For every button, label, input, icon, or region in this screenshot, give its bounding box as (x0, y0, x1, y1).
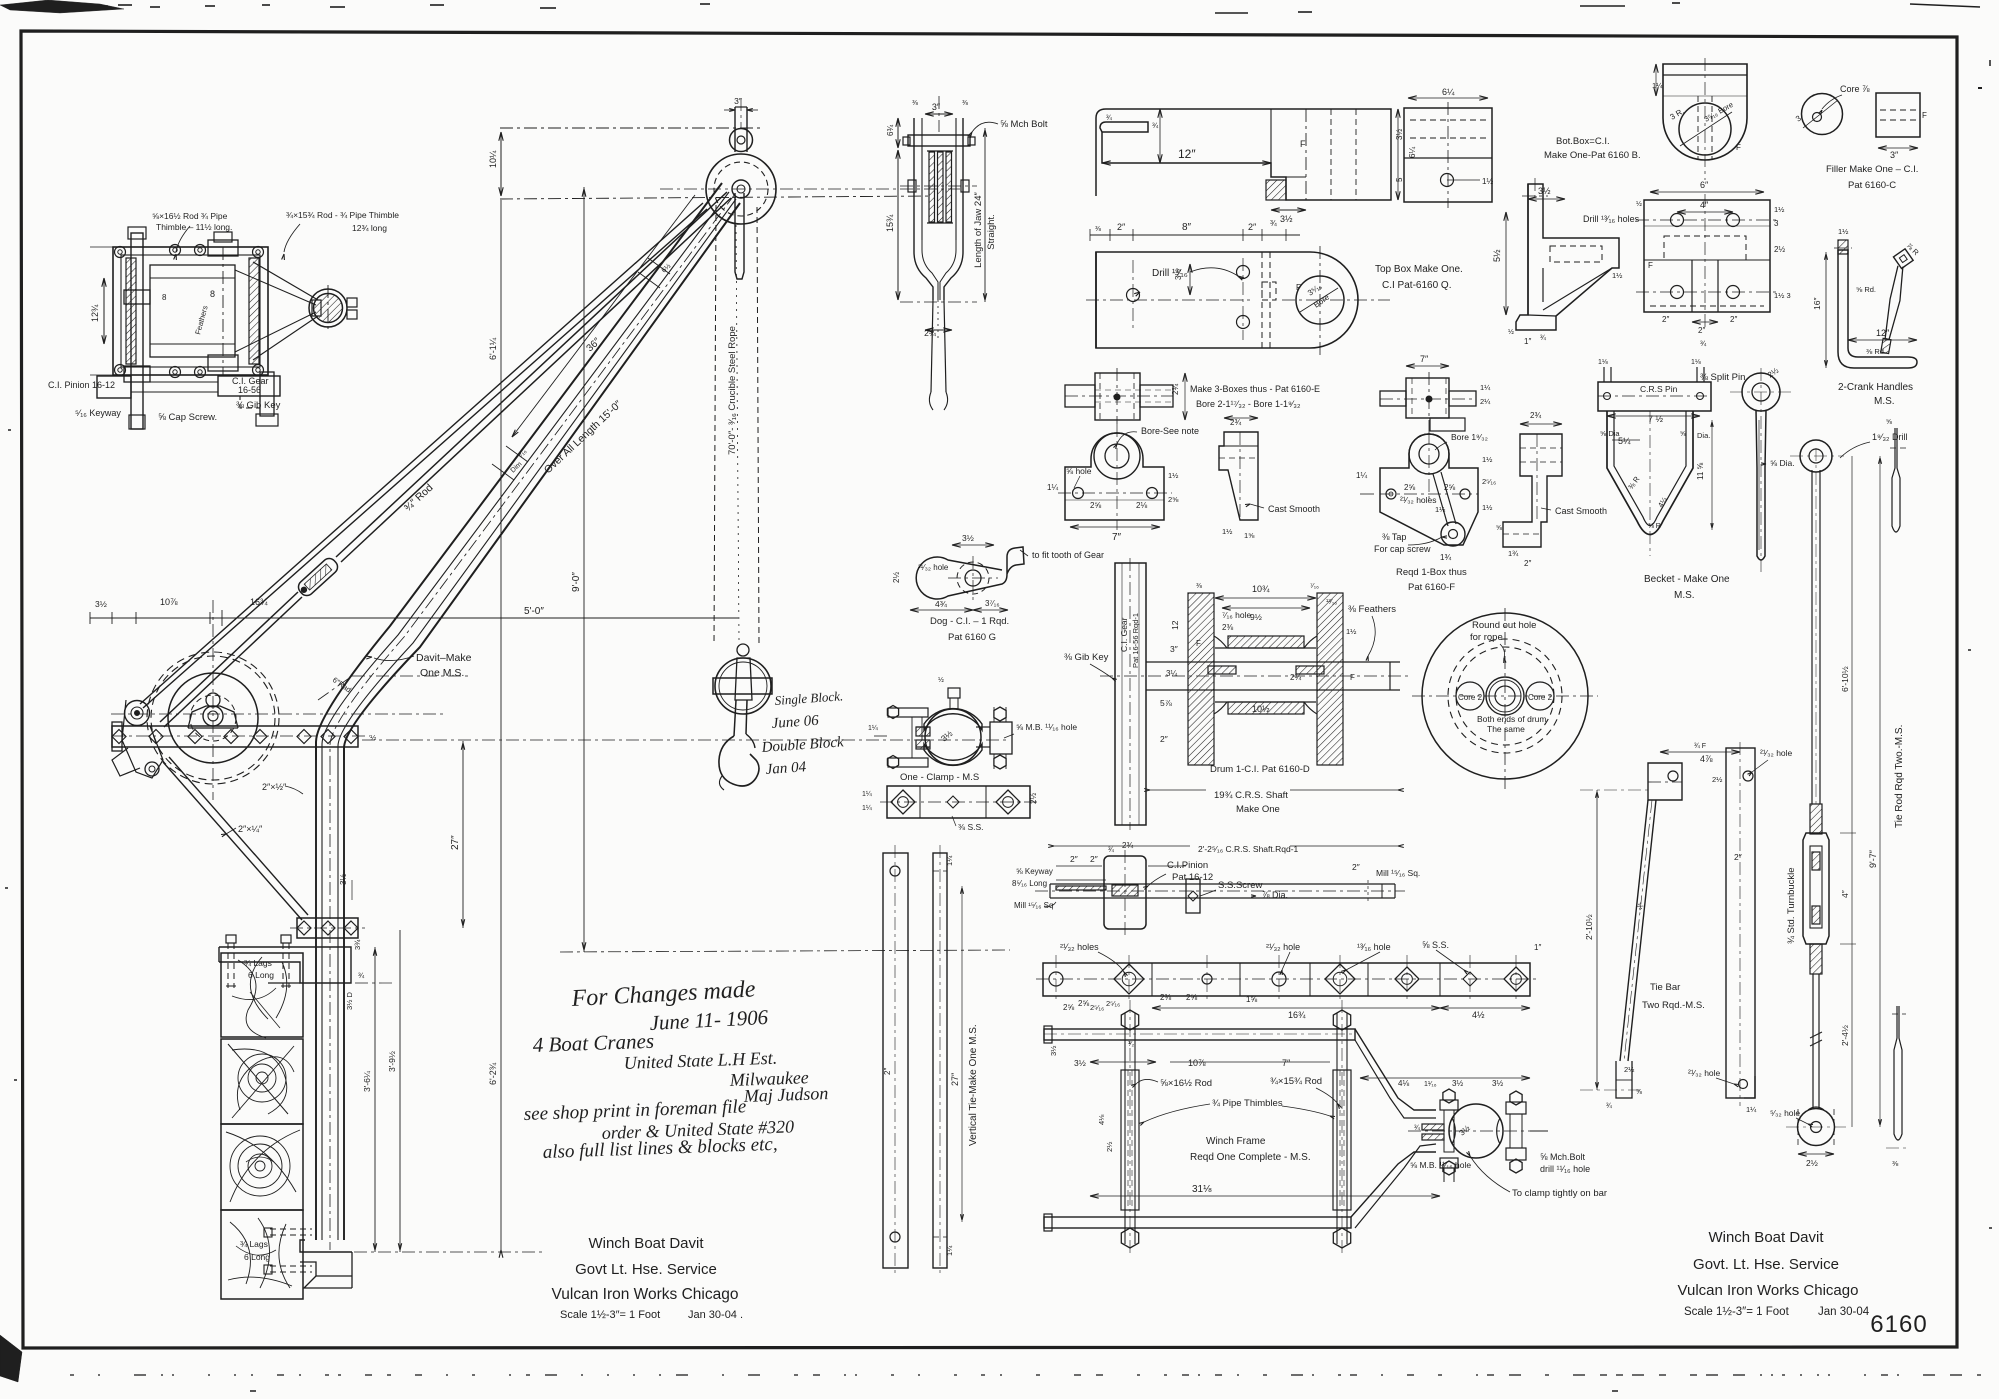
winch frame - clamp rings (1449, 1104, 1503, 1158)
svg-text:⁵⁄₃₂ hole: ⁵⁄₃₂ hole (1770, 1108, 1800, 1118)
svg-text:6″: 6″ (1700, 180, 1709, 190)
C.I. gear edge view bar (1115, 563, 1146, 825)
svg-text:10⅞: 10⅞ (160, 597, 178, 607)
svg-text:¾: ¾ (1152, 121, 1159, 130)
svg-text:2″: 2″ (1070, 854, 1078, 864)
svg-text:1½: 1½ (1222, 527, 1233, 536)
svg-text:2½: 2½ (1806, 1158, 1818, 1168)
svg-text:1½ 3: 1½ 3 (1774, 291, 1791, 300)
svg-text:3″: 3″ (1170, 644, 1178, 654)
rope fall dashed lines to block (714, 205, 716, 645)
svg-text:Reqd One Complete - M.S.: Reqd One Complete - M.S. (1190, 1152, 1311, 1163)
svg-text:²¹⁄₃₂ holes: ²¹⁄₃₂ holes (1400, 495, 1437, 505)
svg-text:C.I. Gear: C.I. Gear (1119, 617, 1129, 652)
svg-text:3'-6¼: 3'-6¼ (362, 1070, 372, 1092)
svg-text:Becket - Make One: Becket - Make One (1644, 574, 1730, 585)
vertical tie - dim 27 (961, 886, 963, 1222)
svg-text:for rope: for rope (1470, 632, 1503, 643)
svg-text:6160: 6160 (1870, 1311, 1927, 1338)
drum section - barrel walls hatched (1228, 636, 1304, 648)
svg-text:2⅝: 2⅝ (1186, 993, 1197, 1002)
svg-text:2″: 2″ (1698, 326, 1705, 335)
svg-text:1¹⁄₁₆: 1¹⁄₁₆ (1424, 1081, 1437, 1088)
winch frame - bottom rail (1044, 1217, 1351, 1228)
svg-text:6 Long: 6 Long (244, 1252, 270, 1262)
box F - side view (1503, 434, 1562, 547)
svg-text:Tie Bar: Tie Bar (1650, 982, 1680, 993)
top box - end plate (1404, 108, 1492, 202)
one-clamp - top bolt (948, 688, 960, 698)
frame bar left end plate (112, 722, 122, 751)
svg-text:3½: 3½ (1280, 214, 1293, 224)
svg-text:Mill ¹⁵⁄₁₆ Sq.: Mill ¹⁵⁄₁₆ Sq. (1376, 868, 1420, 878)
svg-text:12: 12 (1170, 620, 1180, 630)
svg-text:Bore 2-1¹⁷⁄₃₂ - Bore 1-1⁹⁄₃₂: Bore 2-1¹⁷⁄₃₂ - Bore 1-1⁹⁄₃₂ (1196, 399, 1301, 409)
svg-text:Vertical Tie-Make One M.S.: Vertical Tie-Make One M.S. (968, 1024, 979, 1146)
svg-text:6'-10½: 6'-10½ (1840, 666, 1850, 692)
svg-text:¾ Pipe Thimbles: ¾ Pipe Thimbles (1212, 1098, 1283, 1109)
svg-text:C.R.S Pin: C.R.S Pin (1640, 384, 1678, 394)
svg-text:3'-9½: 3'-9½ (387, 1051, 397, 1072)
small rod lower right (1894, 1006, 1902, 1140)
svg-text:Pat 16-12: Pat 16-12 (1172, 872, 1213, 883)
svg-text:3¼: 3¼ (1166, 669, 1177, 678)
svg-text:⅝ M.B. ¹¹⁄₁₆ hole: ⅝ M.B. ¹¹⁄₁₆ hole (1016, 722, 1077, 732)
svg-text:Jan 04: Jan 04 (765, 759, 807, 778)
svg-text:2″: 2″ (1524, 559, 1531, 568)
svg-text:2⅝: 2⅝ (1168, 495, 1179, 504)
drum section - shaft right end feathers (1389, 662, 1391, 690)
svg-text:²¹⁄₃₂ holes: ²¹⁄₃₂ holes (1060, 942, 1099, 952)
svg-text:¹³⁄₁₆ hole: ¹³⁄₁₆ hole (1357, 942, 1391, 952)
svg-text:5⅞: 5⅞ (1160, 698, 1173, 708)
svg-text:⅝ Mch.Bolt: ⅝ Mch.Bolt (1540, 1152, 1586, 1162)
guide pulley (125, 701, 150, 726)
davit arm centerline (330, 194, 735, 762)
box E - plan (1095, 373, 1140, 420)
svg-text:Jan 30-04: Jan 30-04 (1818, 1306, 1870, 1318)
lower clamp bar (297, 918, 358, 938)
left vertical dims at base (374, 947, 376, 1252)
svg-text:2″: 2″ (1352, 862, 1360, 872)
svg-text:½: ½ (938, 676, 944, 684)
svg-text:1¼: 1¼ (1356, 471, 1367, 480)
27in dim near mast (462, 741, 464, 928)
svg-text:⅝ hole: ⅝ hole (1066, 466, 1092, 476)
svg-text:⅝ Cap Screw.: ⅝ Cap Screw. (158, 412, 217, 423)
svg-text:⅜ Gib Key: ⅜ Gib Key (236, 400, 281, 411)
svg-text:¾: ¾ (1700, 339, 1707, 348)
front plate dims (1677, 211, 1733, 213)
svg-text:5: 5 (1395, 177, 1404, 182)
svg-text:Core 2: Core 2 (1458, 693, 1483, 702)
svg-text:1½: 1½ (1346, 627, 1357, 636)
svg-text:¹⁄₂: ¹⁄₂ (1128, 1041, 1135, 1048)
svg-text:C.I. Pinion 16-12: C.I. Pinion 16-12 (48, 380, 115, 390)
svg-text:1¼: 1¼ (868, 725, 878, 732)
svg-text:Two Rqd.-M.S.: Two Rqd.-M.S. (1642, 1000, 1705, 1011)
svg-text:1¼: 1¼ (945, 855, 954, 866)
svg-text:5¼: 5¼ (1618, 436, 1631, 446)
svg-text:2⅛: 2⅛ (1136, 501, 1147, 510)
tie rod with turnbuckle (336, 192, 727, 557)
lower lag bolts (270, 1228, 312, 1230)
svg-text:3⁷⁄₁₆: 3⁷⁄₁₆ (985, 599, 1000, 608)
svg-text:¾ F: ¾ F (1694, 743, 1706, 750)
svg-text:16-56: 16-56 (238, 385, 261, 395)
svg-text:16¾: 16¾ (1288, 1010, 1306, 1020)
svg-text:⅝ Dia: ⅝ Dia (1600, 429, 1620, 438)
svg-text:2″: 2″ (883, 1068, 892, 1075)
svg-text:3″: 3″ (1890, 150, 1899, 160)
svg-text:Govt. Lt. Hse. Service: Govt. Lt. Hse. Service (1693, 1256, 1839, 1273)
bot box - horseshoe (1663, 64, 1747, 160)
svg-text:Dia.: Dia. (1697, 431, 1710, 440)
svg-text:Winch Boat Davit: Winch Boat Davit (588, 1235, 704, 1252)
svg-text:⅜ Feathers: ⅜ Feathers (1348, 604, 1396, 615)
svg-text:12¾ long: 12¾ long (352, 223, 387, 233)
svg-text:1½: 1½ (1612, 271, 1623, 280)
svg-text:drill ¹¹⁄₁₆ hole: drill ¹¹⁄₁₆ hole (1540, 1164, 1590, 1174)
winch plan detail - frame (113, 247, 268, 375)
crank handle L (1838, 250, 1917, 368)
svg-text:Round out hole: Round out hole (1472, 620, 1536, 631)
becket - top pins (1603, 367, 1605, 382)
tie rod - upper threads (1810, 804, 1822, 834)
wood grain block3 (248, 1154, 272, 1178)
svg-text:16¾: 16¾ (250, 597, 268, 607)
svg-text:2″×¼″: 2″×¼″ (238, 824, 263, 834)
hook block sketch (715, 658, 771, 714)
svg-text:1½: 1½ (1482, 177, 1493, 186)
svg-text:⁷⁄₁₆ hole: ⁷⁄₁₆ hole (1222, 610, 1251, 620)
svg-text:One - Clamp - M.S: One - Clamp - M.S (900, 772, 979, 783)
pinion shaft (1050, 883, 1395, 885)
svg-text:7″: 7″ (1420, 354, 1429, 364)
svg-text:⅜: ⅜ (962, 100, 968, 107)
svg-text:2⅜: 2⅜ (1160, 993, 1171, 1002)
svg-text:5'-0″: 5'-0″ (524, 606, 544, 617)
svg-text:3½: 3½ (1049, 1045, 1058, 1056)
svg-text:3½: 3½ (962, 533, 974, 543)
svg-text:Core ⅞: Core ⅞ (1840, 84, 1870, 94)
svg-text:F: F (1300, 139, 1306, 149)
top box - profile dims (1102, 162, 1271, 164)
small rod upper right (1892, 428, 1900, 532)
tie bar - vertical bar view (1726, 748, 1755, 1098)
bottom edge dotted line (70, 1374, 74, 1376)
svg-text:Winch Boat Davit: Winch Boat Davit (1708, 1229, 1824, 1246)
svg-text:Drill ¹³⁄₁₆ holes: Drill ¹³⁄₁₆ holes (1583, 214, 1640, 224)
svg-text:11 ⅝: 11 ⅝ (1696, 462, 1705, 480)
svg-text:1¼: 1¼ (1480, 383, 1491, 392)
svg-text:2⅝: 2⅝ (1090, 501, 1101, 510)
svg-text:5½: 5½ (1492, 249, 1502, 262)
svg-text:2″: 2″ (1734, 852, 1742, 862)
svg-text:¹³⁄₁₆: ¹³⁄₁₆ (1326, 599, 1337, 606)
svg-text:4½: 4½ (1472, 1010, 1485, 1020)
winch frame - top rail (1044, 1029, 1355, 1040)
bottom-left corner mark (0, 1335, 22, 1382)
svg-text:6¼: 6¼ (1408, 147, 1417, 158)
tie rod - bottom eye (1798, 1109, 1835, 1146)
svg-text:10¼: 10¼ (488, 150, 498, 168)
svg-text:Mill ¹⁵⁄₁₆ Sq: Mill ¹⁵⁄₁₆ Sq (1014, 901, 1053, 910)
svg-text:For cap screw: For cap screw (1374, 544, 1431, 554)
jaw block - rope below (931, 300, 933, 392)
winch plan - gear box below (218, 376, 280, 396)
t-bracket dims (1528, 198, 1565, 200)
svg-text:2⁵⁄₁₆: 2⁵⁄₁₆ (1090, 1003, 1104, 1012)
svg-text:Maj Judson: Maj Judson (742, 1083, 828, 1106)
drum end - hub (1486, 677, 1524, 715)
becket - u bar (1607, 411, 1693, 535)
svg-text:12¾: 12¾ (90, 304, 100, 322)
svg-text:12″: 12″ (1178, 147, 1196, 161)
winch plan - corner bolts (115, 247, 126, 258)
top box - plan view (1096, 252, 1358, 348)
svg-text:3½: 3½ (1395, 129, 1404, 140)
jaw block - lower jaw vee (914, 238, 933, 300)
svg-text:¾×15¾ Rod: ¾×15¾ Rod (1270, 1076, 1322, 1087)
svg-text:Vulcan Iron Works Chicago: Vulcan Iron Works Chicago (552, 1286, 739, 1303)
tie bar - diagonal (1620, 800, 1648, 1061)
svg-text:1⅛: 1⅛ (1598, 359, 1608, 366)
svg-text:27″: 27″ (950, 1072, 960, 1086)
svg-text:⅜ S.S.: ⅜ S.S. (958, 822, 984, 832)
pulley bracket and pivot (122, 700, 163, 778)
svg-text:F: F (1196, 639, 1201, 648)
crank handle grip detail (1834, 247, 1852, 249)
svg-text:7″: 7″ (1112, 532, 1122, 543)
svg-text:1½: 1½ (1774, 205, 1785, 214)
svg-text:C.I Pat-6160 Q.: C.I Pat-6160 Q. (1382, 280, 1451, 291)
ss screw block (1186, 879, 1200, 913)
svg-text:Davit–Make: Davit–Make (416, 652, 472, 664)
tie rod - eye top (1800, 440, 1832, 472)
becket - top pin bar (1598, 382, 1711, 411)
drum section - right flange (1317, 593, 1343, 765)
centerline through drum (111, 713, 446, 715)
svg-text:Drill ¹³⁄₁₆: Drill ¹³⁄₁₆ (1152, 268, 1188, 279)
svg-text:3¾: 3¾ (353, 939, 362, 950)
angle radius note at mast bend (318, 676, 352, 700)
box E - side view (1219, 432, 1258, 520)
svg-text:½: ½ (370, 733, 377, 742)
jaw block - side bolts (908, 180, 916, 192)
winch plan - tie rods to thimble ball (253, 262, 318, 300)
svg-text:⅝: ⅝ (1886, 419, 1892, 426)
svg-text:M.S.: M.S. (1674, 590, 1695, 601)
svg-text:2'-4½: 2'-4½ (1840, 1025, 1850, 1046)
svg-text:2″: 2″ (1160, 734, 1168, 744)
svg-text:Govt Lt. Hse. Service: Govt Lt. Hse. Service (575, 1261, 717, 1278)
svg-text:6¾: 6¾ (886, 125, 895, 136)
svg-text:3½: 3½ (339, 874, 348, 885)
svg-text:Pat 16-56 Rqd-1: Pat 16-56 Rqd-1 (1131, 613, 1140, 668)
one-clamp - ring (925, 709, 981, 765)
lag bolts upper (226, 935, 236, 943)
rod turnbuckle (296, 556, 341, 599)
svg-text:1⁹⁄₃₂ Drill: 1⁹⁄₃₂ Drill (1872, 432, 1908, 442)
svg-text:10¾: 10¾ (1252, 584, 1270, 594)
svg-text:1⅛: 1⅛ (1691, 359, 1701, 366)
svg-text:Make One: Make One (1236, 804, 1280, 815)
winch frame - vertical rods (1124, 1013, 1126, 1244)
winch plan - pipe thimble ball (314, 294, 343, 323)
svg-text:One M.S.: One M.S. (420, 667, 464, 679)
svg-text:¾: ¾ (1108, 847, 1114, 854)
svg-text:Make 3-Boxes thus - Pat 6160-E: Make 3-Boxes thus - Pat 6160-E (1190, 384, 1320, 394)
svg-text:Both ends of drum: Both ends of drum (1477, 714, 1546, 724)
svg-text:Cast Smooth: Cast Smooth (1268, 504, 1320, 514)
svg-text:70'-0″- ³⁄₁₆ Crucible Steel Ro: 70'-0″- ³⁄₁₆ Crucible Steel Rope (727, 326, 738, 455)
wood grain block2 (232, 1049, 287, 1114)
svg-text:2½: 2½ (1712, 775, 1723, 784)
svg-text:⁷⁄₁₆: ⁷⁄₁₆ (1310, 583, 1319, 590)
svg-text:²¹⁄₃₂ hole: ²¹⁄₃₂ hole (1688, 1068, 1721, 1078)
svg-text:C.I.Pinion: C.I.Pinion (1167, 860, 1208, 871)
svg-text:⅜ R: ⅜ R (1648, 523, 1661, 530)
svg-text:¾ Std. Turnbuckle: ¾ Std. Turnbuckle (1786, 867, 1797, 944)
svg-text:31⅛: 31⅛ (1192, 1184, 1212, 1195)
svg-text:1⅝: 1⅝ (1246, 995, 1257, 1004)
svg-text:1½: 1½ (1168, 471, 1179, 480)
jaw block - sheaves (929, 152, 935, 222)
svg-text:1¾: 1¾ (1440, 553, 1451, 562)
svg-text:Pat 6160-F: Pat 6160-F (1408, 582, 1455, 593)
svg-text:1½: 1½ (1482, 503, 1493, 512)
svg-text:June 06: June 06 (771, 713, 820, 732)
front plate 6in (1644, 200, 1770, 312)
svg-text:2½: 2½ (1105, 1141, 1114, 1152)
svg-text:⅜ Tap: ⅜ Tap (1382, 532, 1406, 542)
svg-text:To clamp tightly on bar: To clamp tightly on bar (1512, 1188, 1607, 1199)
pinion block (1104, 856, 1146, 929)
dim 10-1/4 vertical (500, 132, 502, 196)
svg-text:⅜: ⅜ (1095, 226, 1101, 233)
svg-text:Reqd 1-Box thus: Reqd 1-Box thus (1396, 567, 1467, 578)
svg-text:F: F (1296, 283, 1301, 292)
svg-text:Dog - C.I. – 1 Rqd.: Dog - C.I. – 1 Rqd. (930, 616, 1009, 627)
svg-text:7 ½: 7 ½ (1648, 414, 1664, 424)
svg-text:⁵⁄₁₆ Keyway: ⁵⁄₁₆ Keyway (75, 408, 121, 418)
vertical tie - face bar (883, 853, 908, 1268)
svg-text:8″: 8″ (1182, 222, 1192, 233)
svg-text:4″: 4″ (1700, 200, 1709, 210)
svg-text:Pat 6160 G: Pat 6160 G (948, 632, 996, 643)
svg-text:F: F (1350, 673, 1355, 682)
svg-text:3″: 3″ (932, 102, 941, 112)
svg-text:2¾: 2¾ (1230, 418, 1241, 427)
mast base foot (300, 1240, 352, 1252)
right margin specks (1978, 87, 1982, 89)
svg-text:¾ Lags: ¾ Lags (240, 1239, 268, 1249)
davit head top link (730, 129, 753, 152)
winch frame bar with diamond bolts (112, 726, 358, 747)
eye rod (1742, 373, 1780, 411)
svg-text:2″: 2″ (1090, 854, 1098, 864)
svg-text:⅝ Rd.: ⅝ Rd. (1856, 285, 1876, 294)
box E - front view (1065, 433, 1164, 520)
svg-text:⅝ Keyway: ⅝ Keyway (1016, 867, 1053, 876)
davit head centerlines (500, 127, 760, 129)
svg-text:2″: 2″ (1662, 315, 1669, 324)
svg-text:1½: 1½ (1482, 455, 1493, 464)
svg-text:Scale 1½-3″= 1 Foot: Scale 1½-3″= 1 Foot (560, 1309, 660, 1321)
svg-text:¾ Lags: ¾ Lags (244, 958, 272, 968)
svg-text:1¼: 1¼ (1746, 1105, 1757, 1114)
winch drum side view circles (147, 652, 279, 784)
svg-text:10½: 10½ (1252, 704, 1270, 714)
svg-text:2½: 2½ (1774, 245, 1785, 254)
dim line at drum top (90, 617, 222, 619)
svg-text:2'-2⁵⁄₁₆ C.R.S. Shaft.Rqd-1: 2'-2⁵⁄₁₆ C.R.S. Shaft.Rqd-1 (1198, 844, 1299, 854)
svg-text:¾: ¾ (1414, 1125, 1420, 1132)
svg-text:Bore 1⁹⁄₃₂: Bore 1⁹⁄₃₂ (1451, 432, 1488, 442)
svg-text:3½: 3½ (1538, 186, 1551, 196)
36 inch dim along arm (512, 195, 695, 437)
svg-text:2⅝: 2⅝ (1404, 483, 1415, 492)
base step dims (355, 982, 395, 984)
svg-text:¾: ¾ (358, 971, 365, 980)
svg-text:F: F (1648, 261, 1653, 270)
svg-text:Bot.Box=C.I.: Bot.Box=C.I. (1556, 136, 1610, 147)
svg-text:2″: 2″ (1248, 222, 1257, 232)
svg-text:3½: 3½ (95, 599, 107, 609)
tie bar - top right hole (1743, 771, 1753, 781)
svg-text:19¾ C.R.S. Shaft: 19¾ C.R.S. Shaft (1214, 790, 1288, 801)
svg-text:⅝ Mch Bolt: ⅝ Mch Bolt (1000, 119, 1048, 130)
tie rod - shank (1811, 470, 1813, 804)
svg-text:2¾: 2¾ (924, 328, 937, 338)
baseline dashdot at y952 (560, 950, 1010, 952)
winch plan - left shaft (131, 233, 143, 429)
svg-text:Scale 1½-3″= 1 Foot: Scale 1½-3″= 1 Foot (1684, 1306, 1790, 1318)
svg-text:6¼: 6¼ (1442, 87, 1455, 97)
svg-text:3½: 3½ (1074, 1058, 1086, 1068)
drum section - left flange (1188, 593, 1214, 765)
svg-text:8: 8 (162, 293, 167, 302)
tie bar - foot (1616, 1061, 1632, 1098)
svg-text:1¾: 1¾ (1508, 549, 1519, 558)
filler - circle (1802, 94, 1843, 135)
svg-text:2⅝: 2⅝ (1063, 1003, 1074, 1012)
svg-text:1¼: 1¼ (862, 791, 872, 798)
svg-text:²¹⁄₃₂ hole: ²¹⁄₃₂ hole (1760, 748, 1793, 758)
winch frame - right bolts (1506, 1102, 1526, 1114)
winch plan - crank shaft lower (260, 372, 274, 416)
svg-text:⅜: ⅜ (912, 100, 918, 107)
svg-text:1¼: 1¼ (945, 1245, 954, 1256)
svg-text:Straight.: Straight. (986, 214, 997, 249)
tie rod - lower rod with break (1812, 974, 1814, 1108)
vertical tie - edge bar (933, 853, 947, 1268)
svg-text:12″: 12″ (1876, 328, 1890, 338)
left margin specks (8, 429, 11, 431)
svg-text:Tie Rod Rqd Two.-M.S.: Tie Rod Rqd Two.-M.S. (1894, 725, 1905, 828)
svg-text:Cast Smooth: Cast Smooth (1555, 506, 1607, 516)
svg-text:²¹⁄₃₂ hole: ²¹⁄₃₂ hole (918, 563, 949, 572)
svg-text:⅝: ⅝ (1680, 431, 1686, 438)
svg-text:2'-10½: 2'-10½ (1584, 914, 1594, 940)
svg-text:½: ½ (1508, 328, 1514, 336)
svg-text:2⁵⁄₁₆: 2⁵⁄₁₆ (1106, 999, 1120, 1008)
svg-text:2″×½″: 2″×½″ (262, 782, 287, 792)
top box - plan dims (1090, 234, 1300, 236)
svg-text:⅝ Dia.: ⅝ Dia. (1770, 458, 1795, 468)
jaw block - dims (897, 150, 899, 300)
